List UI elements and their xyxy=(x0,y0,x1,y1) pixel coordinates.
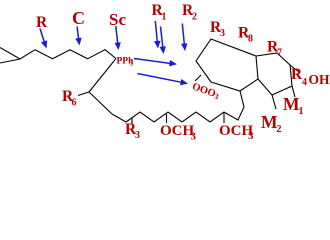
svg-text:OH: OH xyxy=(309,72,330,87)
svg-text:4: 4 xyxy=(302,77,307,88)
svg-text:2: 2 xyxy=(277,124,282,135)
svg-text:M: M xyxy=(283,94,300,114)
ring B xyxy=(256,53,292,95)
bond to B2 xyxy=(131,118,133,124)
bond ring to O xyxy=(195,75,201,81)
bond to B4 xyxy=(223,112,225,123)
svg-text:R: R xyxy=(36,14,48,31)
bond to B1 xyxy=(78,92,89,96)
arrow A1 xyxy=(40,29,45,45)
bottom chain xyxy=(112,91,244,122)
chain top-left zigzag xyxy=(0,48,116,60)
bond to L11 xyxy=(272,95,276,109)
svg-text:3: 3 xyxy=(135,130,140,141)
svg-text:7: 7 xyxy=(277,48,282,59)
svg-text:3: 3 xyxy=(220,28,225,39)
arrow A6 xyxy=(182,24,184,47)
arrow A4 xyxy=(155,21,157,44)
arrow A5 xyxy=(161,27,164,50)
bond to B3 xyxy=(166,114,168,123)
svg-text:M: M xyxy=(261,112,278,132)
svg-text:C: C xyxy=(72,8,85,28)
svg-text:Sc: Sc xyxy=(109,10,126,29)
label center O O O 3 rotated xyxy=(191,81,221,101)
arrow A3 xyxy=(116,26,118,46)
svg-text:6: 6 xyxy=(72,98,77,109)
svg-text:1: 1 xyxy=(162,12,167,23)
svg-text:2: 2 xyxy=(192,12,197,23)
arrow A7 xyxy=(134,59,173,64)
arrow A2 xyxy=(77,27,79,42)
bond to R9 xyxy=(290,65,299,72)
svg-text:1: 1 xyxy=(299,106,304,117)
left fork upper xyxy=(0,59,20,63)
svg-text:3: 3 xyxy=(248,130,254,142)
bond to L10 xyxy=(292,86,295,97)
arrow A8 xyxy=(138,74,185,83)
svg-text:8: 8 xyxy=(248,34,253,45)
svg-text:3: 3 xyxy=(130,60,134,68)
V fold down xyxy=(89,59,116,115)
svg-text:3: 3 xyxy=(191,131,197,143)
svg-text:OCH: OCH xyxy=(160,123,195,139)
ring A xyxy=(196,39,258,91)
